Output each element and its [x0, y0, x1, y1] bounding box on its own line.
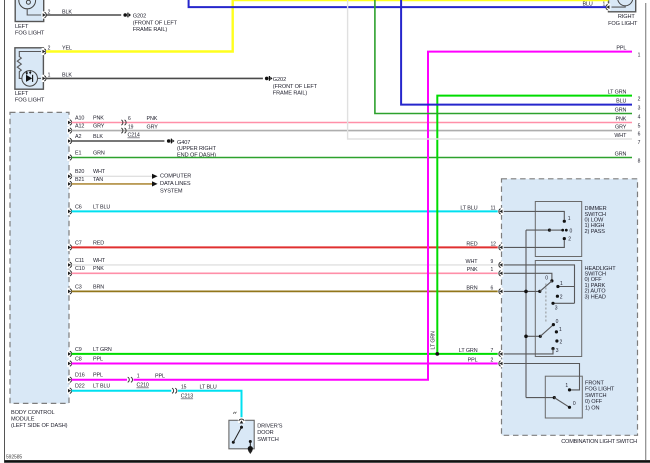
svg-text:LT GRN: LT GRN — [459, 348, 478, 354]
svg-text:0: 0 — [556, 319, 559, 325]
dimmer pivot — [548, 229, 551, 232]
body control module BCM box — [10, 112, 69, 403]
svg-text:4: 4 — [638, 114, 641, 120]
svg-text:A10: A10 — [75, 115, 84, 121]
svg-text:BODY CONTROL: BODY CONTROL — [11, 410, 54, 416]
svg-text:3) HEAD: 3) HEAD — [585, 294, 606, 300]
door switch arm — [232, 441, 235, 444]
svg-text:LT BLU: LT BLU — [200, 385, 217, 391]
ground G202 (lower) — [265, 77, 269, 81]
internal wire with resistor — [19, 52, 41, 58]
BCM pin C8 PPL — [67, 360, 73, 367]
pin 2 connector of upper fog light — [42, 11, 48, 18]
svg-text:PNK: PNK — [93, 266, 104, 272]
wire GRY A12 to C214 and right to pin 6 — [72, 130, 633, 132]
svg-text:D22: D22 — [75, 384, 85, 390]
svg-text:3: 3 — [555, 305, 558, 311]
svg-text:PNK: PNK — [616, 117, 627, 123]
svg-text:G202: G202 — [273, 77, 286, 83]
svg-text:GRN: GRN — [615, 108, 627, 114]
BCM pin B21 TAN — [67, 180, 73, 187]
svg-text:PNK: PNK — [93, 115, 104, 121]
svg-text:LT BLU: LT BLU — [93, 384, 110, 390]
wire YEL fog light going up offpage — [46, 0, 233, 52]
svg-text:BLK: BLK — [93, 134, 103, 140]
svg-text:9: 9 — [491, 259, 494, 265]
front fog light switch box — [545, 376, 582, 418]
pin 2 connector of lower fog light — [42, 48, 48, 55]
svg-text:C8: C8 — [75, 356, 82, 362]
svg-text:C7: C7 — [75, 240, 82, 246]
pin 1 connector of lower fog light — [42, 75, 48, 82]
right fog light bulb — [618, 0, 633, 6]
svg-text:PPL: PPL — [468, 357, 478, 363]
headlight upper pivot — [538, 290, 541, 293]
headlight lower contact 2 — [555, 339, 558, 342]
fog switch contact 1 — [568, 388, 571, 391]
svg-text:FRAME RAIL): FRAME RAIL) — [273, 91, 308, 97]
dimmer switch box — [535, 202, 581, 257]
headlight lower pivot — [539, 335, 542, 338]
svg-text:GRN: GRN — [615, 152, 627, 158]
svg-text:WHT: WHT — [93, 169, 106, 175]
BCM pin C11 WHT — [67, 261, 73, 268]
svg-text:C3: C3 — [75, 284, 82, 290]
svg-text:2: 2 — [638, 96, 641, 102]
headlight contact 2 — [556, 295, 559, 298]
LED arrows — [26, 71, 28, 74]
headlight contact 3 wire — [553, 302, 575, 304]
comb switch pin 11 LT BLU — [498, 208, 504, 215]
svg-text:1: 1 — [137, 374, 140, 380]
svg-text:RIGHT: RIGHT — [618, 14, 636, 20]
BCM pin A12 GRY — [67, 127, 73, 134]
svg-text:FOG LIGHT: FOG LIGHT — [608, 21, 638, 27]
wire TAN B21 to computer data lines — [72, 183, 153, 185]
wire GRN E1 to pin 8 — [72, 157, 633, 159]
left fog light (lower) bulb with LED symbol — [22, 71, 38, 87]
svg-text:1: 1 — [638, 52, 641, 58]
svg-text:592585: 592585 — [6, 454, 22, 460]
dimmer contact 1 — [563, 220, 566, 223]
left fog light (upper) box — [15, 0, 44, 22]
svg-text:FOG LIGHT: FOG LIGHT — [585, 387, 615, 393]
BCM pin D22 LT BLU — [67, 387, 73, 394]
dimmer common wire from bus — [526, 229, 550, 231]
svg-text:0: 0 — [570, 228, 573, 234]
svg-text:8: 8 — [638, 158, 641, 164]
ground G202 (upper) — [123, 13, 127, 17]
BCM pin E1 GRN — [67, 154, 73, 161]
svg-text:5: 5 — [638, 123, 641, 129]
wire PNK A10 to C214 and right to pin 5 — [72, 122, 633, 124]
svg-text:6: 6 — [128, 116, 131, 122]
svg-text:G202: G202 — [133, 14, 146, 20]
BCM pin C3 BRN — [67, 288, 73, 295]
headlight wire pin6 BRN to pivot — [504, 290, 540, 292]
svg-text:BRN: BRN — [466, 285, 477, 291]
page bottom border — [5, 460, 650, 463]
svg-text:DRIVER'S: DRIVER'S — [257, 424, 283, 430]
svg-text:PPL: PPL — [93, 356, 103, 362]
left fog light (upper) bulb — [19, 0, 36, 9]
comb switch pin 9 WHT — [498, 261, 504, 268]
tiny mark above door switch — [233, 412, 236, 414]
wire PPL D16 to C210 — [72, 379, 128, 381]
combination light switch box — [502, 179, 638, 436]
comb switch pin 1 PNK — [498, 270, 504, 277]
svg-text:DOOR: DOOR — [257, 430, 273, 436]
svg-text:C214: C214 — [128, 133, 140, 139]
wire BRN C3 to comb switch pin 6 — [72, 290, 500, 292]
svg-text:PNK: PNK — [147, 116, 158, 122]
svg-text:2: 2 — [560, 295, 563, 301]
fog switch contact 0 — [568, 406, 571, 409]
wire LT GRN C9 to comb switch pin 7 — [72, 353, 500, 355]
svg-text:(FRONT OF LEFT: (FRONT OF LEFT — [133, 20, 178, 26]
ground G407 — [167, 139, 171, 143]
svg-text:MODULE: MODULE — [11, 416, 35, 422]
door switch top connector — [238, 418, 245, 423]
svg-text:1: 1 — [560, 281, 563, 287]
wire YEL clipped along top edge — [233, 0, 609, 1]
svg-text:2: 2 — [568, 236, 571, 242]
svg-text:LT GRN: LT GRN — [608, 90, 627, 96]
svg-text:PPL: PPL — [616, 46, 626, 52]
headlight lower arm to 0 — [540, 325, 553, 337]
BCM pin A2 BLK — [67, 137, 73, 144]
headlight contact 0 — [550, 279, 553, 282]
wire WHT offpage down to pin 7 — [348, 0, 632, 139]
wire PPL C8 to comb switch pin 2 — [72, 363, 500, 365]
common bus vertical — [525, 230, 527, 398]
svg-text:LT BLU: LT BLU — [460, 205, 477, 211]
wire LT BLU from C213 to driver door switch — [178, 391, 242, 418]
headlight upper arm to 0 — [540, 281, 552, 292]
wire PPL from C210 up to pin 1 top right — [134, 52, 633, 380]
svg-text:B20: B20 — [75, 169, 84, 175]
svg-text:6: 6 — [638, 131, 641, 137]
svg-text:E1: E1 — [75, 150, 81, 156]
svg-text:0: 0 — [545, 276, 548, 282]
junction dot LT GRN — [435, 352, 439, 356]
wire WHT C11 to comb switch pin 9 — [72, 264, 500, 266]
svg-text:(UPPER RIGHT: (UPPER RIGHT — [177, 146, 217, 152]
svg-text:2) PASS: 2) PASS — [585, 229, 606, 235]
bus junction at lower pivot row — [524, 335, 528, 339]
mechanical coupling dashed — [545, 284, 547, 322]
svg-text:LT GRN: LT GRN — [431, 331, 437, 350]
BCM pin C9 LT GRN — [67, 350, 73, 357]
svg-text:BLU: BLU — [616, 99, 626, 105]
svg-text:3: 3 — [556, 348, 559, 354]
fog switch arm to 0 — [554, 398, 569, 408]
svg-text:LT BLU: LT BLU — [93, 204, 110, 210]
svg-text:WHT: WHT — [614, 133, 627, 139]
headlight lower pivot wire — [526, 335, 540, 337]
svg-text:FRONT: FRONT — [585, 381, 604, 387]
svg-text:WHT: WHT — [466, 259, 479, 265]
fog switch pivot — [553, 396, 556, 399]
wire PNK C10 to comb switch pin 1 — [72, 272, 500, 274]
dimmer wire pin12 to contact 2 — [504, 240, 565, 247]
svg-text:C10: C10 — [75, 266, 85, 272]
svg-text:LEFT: LEFT — [15, 24, 29, 30]
svg-text:C9: C9 — [75, 347, 82, 353]
headlight lower contact 1 — [555, 330, 558, 333]
wire BLU offpage down to pin 3 — [401, 0, 632, 105]
svg-text:PNK: PNK — [467, 267, 478, 273]
svg-text:1: 1 — [491, 267, 494, 273]
headlight wire pin9 to bus — [504, 265, 575, 303]
svg-text:1: 1 — [559, 327, 562, 333]
BCM pin A10 PNK — [67, 119, 73, 126]
svg-text:(FRONT OF LEFT: (FRONT OF LEFT — [273, 84, 318, 90]
BCM pin D16 PPL — [67, 376, 73, 383]
svg-text:(LEFT SIDE OF DASH): (LEFT SIDE OF DASH) — [11, 423, 68, 429]
svg-text:RED: RED — [93, 240, 104, 246]
svg-text:3: 3 — [638, 105, 641, 111]
svg-text:SWITCH: SWITCH — [257, 437, 279, 443]
svg-text:1: 1 — [565, 383, 568, 389]
svg-text:C11: C11 — [75, 258, 84, 264]
fog switch wire pin2 PPL to contact 1 — [504, 364, 580, 390]
headlight switch box — [535, 261, 581, 357]
svg-text:COMPUTER: COMPUTER — [160, 173, 191, 179]
wire BLK from upper fog light to G202 — [46, 14, 121, 16]
headlight wire pin1 PNK to contact 0 — [504, 273, 552, 279]
svg-text:PPL: PPL — [93, 373, 103, 379]
connector C210 — [128, 377, 130, 382]
svg-text:FOG LIGHT: FOG LIGHT — [15, 98, 45, 104]
svg-text:GRY: GRY — [615, 125, 627, 131]
dimmer wire pin11 to contact 1 — [504, 211, 565, 219]
headlight contact 1 wire — [558, 286, 575, 288]
svg-text:0) OFF: 0) OFF — [585, 399, 603, 405]
svg-text:COMBINATION LIGHT SWITCH: COMBINATION LIGHT SWITCH — [561, 439, 637, 445]
svg-text:RED: RED — [466, 241, 477, 247]
svg-text:2: 2 — [560, 340, 563, 346]
svg-text:FOG LIGHT: FOG LIGHT — [15, 31, 45, 37]
svg-text:BRN: BRN — [93, 284, 104, 290]
svg-text:C6: C6 — [75, 204, 82, 210]
headlight lower contact 3 wire to pin 7 — [504, 349, 553, 354]
headlight lower contact 3 — [551, 347, 554, 350]
svg-text:DATA LINES: DATA LINES — [160, 181, 191, 187]
svg-text:7: 7 — [638, 140, 641, 146]
svg-text:A2: A2 — [75, 134, 81, 140]
page left border — [4, 0, 6, 463]
door switch ground contact — [249, 440, 252, 443]
right fog light box — [609, 0, 636, 12]
svg-text:12: 12 — [491, 241, 497, 247]
wire WHT B20 to computer data lines — [72, 175, 153, 177]
pin 1 connector of right fog light — [605, 4, 611, 11]
connector C214 — [121, 120, 123, 125]
svg-text:0: 0 — [573, 401, 576, 407]
svg-text:GRY: GRY — [147, 125, 159, 131]
resistor inside fog light — [17, 57, 22, 79]
comb switch pin 12 RED — [498, 244, 504, 251]
wire LT BLU D22 to C213 — [72, 390, 172, 392]
driver's door switch box — [229, 420, 254, 449]
svg-text:G407: G407 — [177, 140, 190, 146]
svg-text:PPL: PPL — [155, 374, 165, 380]
comb switch pin 2 PPL — [498, 360, 504, 367]
wire BLK A2 to G407 — [72, 140, 165, 142]
wire inside right fog light — [612, 6, 626, 7]
svg-text:6: 6 — [491, 285, 494, 291]
svg-text:SYSTEM: SYSTEM — [160, 189, 183, 195]
svg-text:2: 2 — [491, 357, 494, 363]
svg-text:A12: A12 — [75, 124, 84, 130]
svg-text:7: 7 — [491, 348, 494, 354]
svg-text:FRAME RAIL): FRAME RAIL) — [133, 27, 168, 33]
wire BLU from offpage to right fog light — [189, 0, 606, 7]
comb switch pin 6 BRN — [498, 288, 504, 295]
svg-text:B21: B21 — [75, 177, 84, 183]
comb switch pin 7 LT GRN — [498, 350, 504, 357]
connector C213 — [172, 388, 174, 393]
svg-text:C210: C210 — [137, 383, 149, 389]
dimmer contact 0 — [565, 229, 568, 232]
svg-text:SWITCH: SWITCH — [585, 393, 607, 399]
page right border — [645, 3, 647, 460]
wire inside upper fog light — [27, 9, 41, 15]
svg-text:GRY: GRY — [93, 124, 105, 130]
BCM pin C10 PNK — [67, 270, 73, 277]
LT GRN branch up to pin 2 top right — [437, 96, 632, 354]
svg-text:TAN: TAN — [93, 177, 103, 183]
left fog light (lower) box — [15, 48, 44, 89]
svg-text:D16: D16 — [75, 373, 85, 379]
svg-text:C213: C213 — [181, 394, 193, 400]
wire RED C7 to comb switch pin 12 — [72, 246, 500, 248]
dimmer arm at position 0 — [550, 229, 563, 231]
fog switch pivot wire from bus — [526, 397, 554, 399]
wire GRN offpage down to pin 4 — [375, 0, 632, 114]
dimmer contact 2 — [563, 237, 566, 240]
wire bulb to pin 1 — [38, 77, 42, 79]
svg-text:LT GRN: LT GRN — [93, 347, 112, 353]
BCM pin C7 RED — [67, 244, 73, 251]
BCM pin C6 LT BLU — [67, 208, 73, 215]
wire LT BLU C6 to comb switch pin 11 — [72, 210, 500, 212]
svg-text:19: 19 — [128, 125, 134, 131]
headlight lower contact 0 — [552, 323, 555, 326]
svg-text:1: 1 — [568, 216, 571, 222]
wire BLK lower fog light to G202 — [46, 77, 263, 79]
svg-text:11: 11 — [491, 205, 496, 211]
svg-text:1) ON: 1) ON — [585, 405, 599, 411]
BCM pin B20 WHT — [67, 173, 73, 180]
svg-text:15: 15 — [181, 385, 187, 391]
svg-text:GRN: GRN — [93, 150, 105, 156]
svg-text:WHT: WHT — [93, 258, 106, 264]
bus junction at BRN row — [524, 290, 528, 294]
svg-text:LEFT: LEFT — [15, 91, 29, 97]
